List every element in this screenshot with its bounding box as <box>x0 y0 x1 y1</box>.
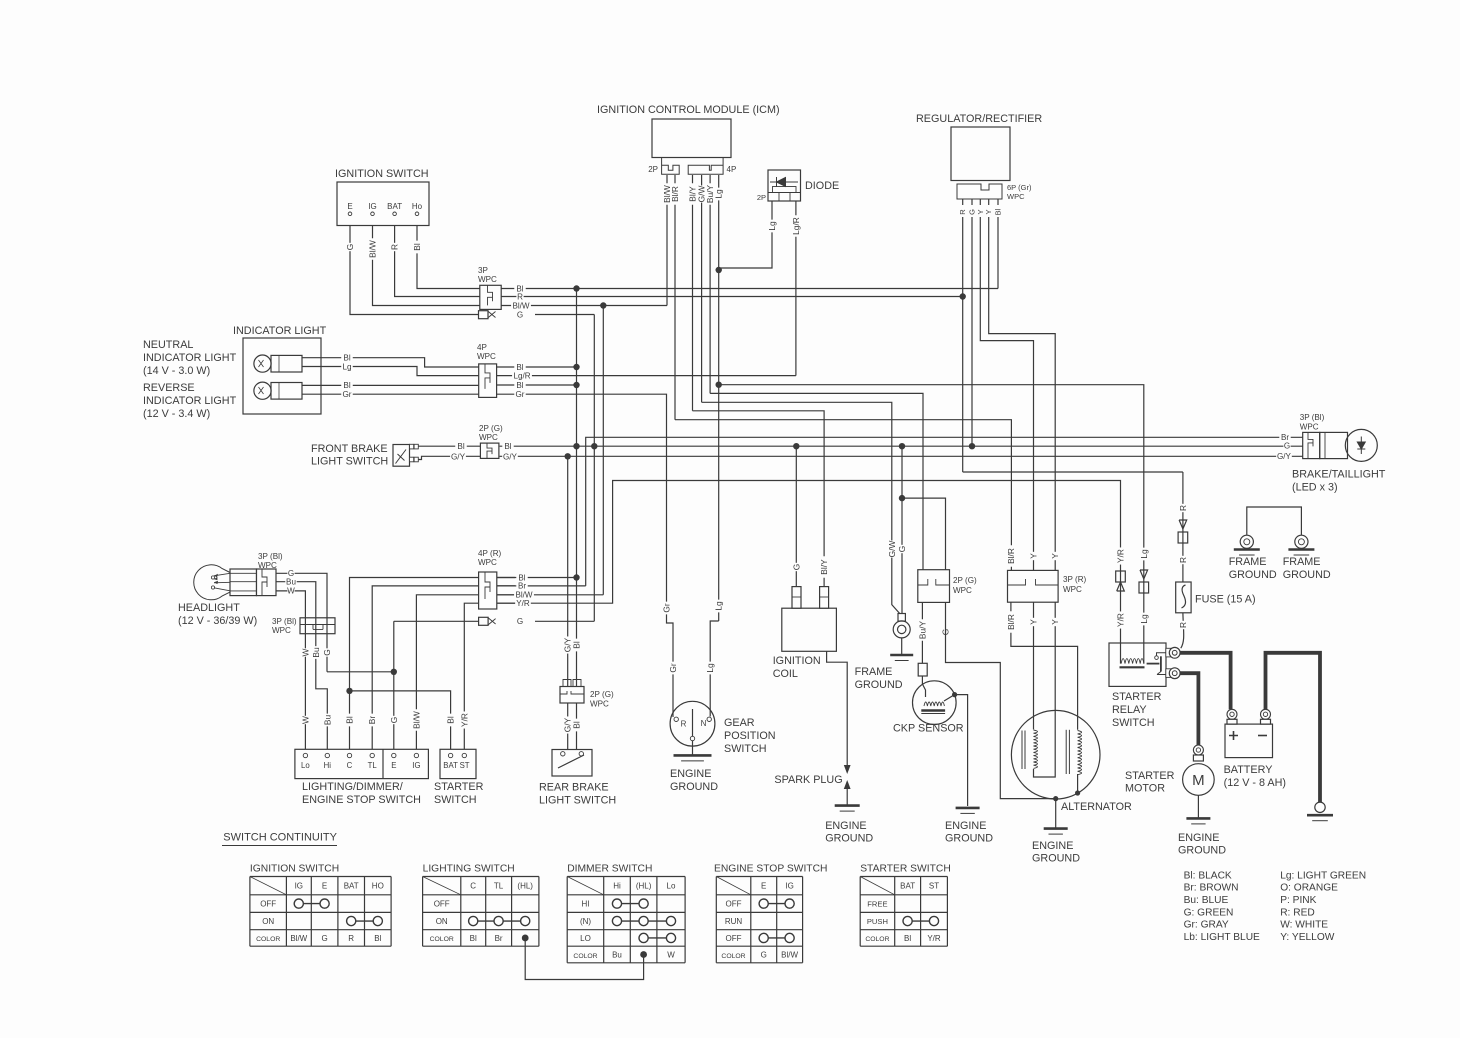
wire: diode Lg/R pin down to Lg/R row <box>795 201 797 376</box>
wire: front brake Bl row to 2P(G) connector <box>419 445 481 447</box>
label Bl above starter switch BAT pin <box>446 714 454 727</box>
label Bl above switch C pin <box>345 714 353 727</box>
label G above switch E pin <box>390 716 398 724</box>
junction: Bl vertical / 4P WPC Bl row 1 <box>573 364 579 370</box>
wire: 4P(R) Bl row to lighting switch C pin <box>350 578 479 750</box>
starter motor circle <box>1183 764 1215 796</box>
svg-text:GROUND: GROUND <box>1283 569 1331 581</box>
svg-text:Bl: Bl <box>457 442 464 451</box>
wire: ICM Bl/Y pin down <box>692 175 694 411</box>
wire: G/W bus to CKP eyelet <box>702 402 900 613</box>
svg-text:W: W <box>287 587 295 596</box>
svg-text:GROUND: GROUND <box>855 679 903 691</box>
battery - sign <box>1258 735 1267 737</box>
label Bl above rear brake 2P connector <box>572 639 580 652</box>
svg-text:Bu: BLUE: Bu: BLUE <box>1184 895 1229 906</box>
svg-text:Bl/W: Bl/W <box>781 951 798 960</box>
starter motor ground stem <box>1197 795 1199 818</box>
wire: ignition switch Ho pin to Bl row <box>417 226 480 289</box>
svg-text:Bu: Bu <box>322 715 332 726</box>
starter relay terminal stub blocks <box>1166 648 1173 657</box>
junction: R row / regulator R pin <box>960 293 966 299</box>
junction: G bus / G vertical from 3P G row <box>591 443 597 449</box>
svg-text:Y/R: Y/R <box>927 934 941 943</box>
front brake 2P(G) WPC connector box <box>480 443 499 458</box>
svg-text:BAT: BAT <box>443 761 458 770</box>
frame ground bar (CKP area) <box>890 654 913 657</box>
4P(R) row label Bl <box>516 574 527 582</box>
svg-text:Bl: Bl <box>516 381 523 390</box>
label Bu/Y on ICM pin <box>706 183 714 204</box>
junction: G vertical / headlight G wire <box>391 669 397 675</box>
svg-text:HEADLIGHT: HEADLIGHT <box>178 602 240 614</box>
svg-text:G/Y: G/Y <box>1277 452 1292 461</box>
wire: regulator G pin down to G bus <box>971 217 973 446</box>
svg-text:INDICATOR LIGHT: INDICATOR LIGHT <box>143 395 237 407</box>
svg-text:4P: 4P <box>727 165 737 174</box>
wire: CKP G pin to alternator ground run <box>946 602 1056 798</box>
junction: regulator G / G bus <box>969 443 975 449</box>
svg-text:Br: Br <box>367 716 377 725</box>
svg-text:FREE: FREE <box>867 900 887 909</box>
svg-text:G: GREEN: G: GREEN <box>1184 907 1234 918</box>
frame ground eyelet (CKP area) <box>893 621 910 638</box>
switch continuity underline <box>222 845 337 847</box>
alternator engine ground bar <box>1044 827 1068 830</box>
junction: Lg / Lg branch to starter relay <box>716 382 722 388</box>
svg-text:COIL: COIL <box>773 668 798 680</box>
headlight WPC block <box>257 569 277 596</box>
CKP pickup coil bumps <box>924 702 944 706</box>
gear switch selector bar <box>692 709 694 736</box>
svg-text:REGULATOR/RECTIFIER: REGULATOR/RECTIFIER <box>916 113 1042 125</box>
svg-text:IG: IG <box>412 761 420 770</box>
svg-text:COLOR: COLOR <box>721 953 745 960</box>
label Bu/Y below CKP connector <box>918 619 926 640</box>
frame ground bolt left <box>1240 535 1253 548</box>
starter relay switch box <box>1109 643 1166 686</box>
svg-text:ENGINE STOP SWITCH: ENGINE STOP SWITCH <box>302 794 421 806</box>
wire: reverse indicator Bl wire to 4P row3 <box>302 384 478 386</box>
svg-text:FRAME: FRAME <box>1283 556 1321 568</box>
headlight filament arrows <box>214 573 230 591</box>
svg-text:Br: Br <box>518 582 526 591</box>
wire: alternator ground stem <box>1055 799 1057 828</box>
svg-text:BAT: BAT <box>900 882 915 891</box>
svg-text:ENGINE: ENGINE <box>945 820 986 832</box>
rear brake 2P(G) WPC connector box <box>560 687 584 704</box>
junction: G/Y bus / rear brake G/Y vertical <box>565 453 571 459</box>
wire: CKP Bu/Y bullet to pickup coil <box>922 676 925 697</box>
svg-text:4P (R): 4P (R) <box>478 549 502 558</box>
svg-text:COLOR: COLOR <box>865 936 889 943</box>
svg-text:Gr: Gr <box>516 390 525 399</box>
front brake switch terminals row 2 <box>410 457 414 462</box>
svg-text:ENGINE: ENGINE <box>1032 840 1073 852</box>
label R below fuse <box>1179 621 1187 629</box>
svg-text:WPC: WPC <box>1007 192 1025 201</box>
label Y/R above starter relay <box>1116 547 1124 564</box>
junction: G / branch to CKP 2P connector <box>899 495 905 501</box>
svg-text:WPC: WPC <box>258 561 277 570</box>
label Gr below jog <box>669 662 677 675</box>
svg-text:Hi: Hi <box>613 882 621 891</box>
wire: 4P(R) Y/R row to Y/R bus to starter relay <box>497 481 1121 664</box>
label R below bullet <box>1179 556 1187 564</box>
spark plug lower arrowhead <box>844 780 851 789</box>
lighting switch table diagonal <box>423 877 461 895</box>
svg-text:STARTER: STARTER <box>1125 770 1175 782</box>
wire: CKP Bu/Y pin below connector <box>921 602 923 663</box>
3P WPC row label R <box>516 293 523 301</box>
label Bl on reverse indicator wire <box>341 381 353 389</box>
svg-text:2P (G): 2P (G) <box>953 576 977 585</box>
wire label Bl/W on ignition switch IG wire <box>368 238 376 259</box>
starter relay coil symbol <box>1121 659 1144 664</box>
svg-text:POSITION: POSITION <box>724 730 776 742</box>
label G/W on ICM pin <box>697 185 705 202</box>
label Bu above switch <box>323 714 331 727</box>
fuse box <box>1176 582 1191 613</box>
wire: Bl vertical bus (3P Bl row down to rear brake switch) <box>576 289 578 750</box>
label G mid <box>323 648 331 656</box>
4P(R) row label Y/R <box>515 599 531 607</box>
svg-text:R: RED: R: RED <box>1280 907 1315 918</box>
svg-text:NEUTRAL: NEUTRAL <box>143 339 193 351</box>
regulator 6P connector <box>957 184 1002 199</box>
bullet connector on Lg wire: open triangle <box>1140 570 1148 579</box>
bullet connector on Lg wire: box <box>1139 582 1149 593</box>
rear brake connector internal step <box>560 691 584 694</box>
battery - terminal <box>1261 709 1271 719</box>
4P WPC row label Gr <box>514 390 525 398</box>
label Bl/R below 3P(R) <box>1007 611 1015 632</box>
label Br above switch TL pin <box>368 714 376 727</box>
wire: ignition coil G terminal up to G bus <box>795 446 797 586</box>
svg-text:STARTER: STARTER <box>1112 691 1162 703</box>
neutral indicator bulb circle <box>254 355 271 372</box>
wire label R on ignition switch BAT wire <box>390 243 398 251</box>
fuse S symbol <box>1182 585 1186 608</box>
svg-text:IG: IG <box>295 882 303 891</box>
brake/taillight 3P(Bl) connector box <box>1303 432 1320 458</box>
svg-text:Lb: LIGHT BLUE: Lb: LIGHT BLUE <box>1184 932 1260 943</box>
wire: headlight G wire across <box>327 671 394 673</box>
svg-text:LIGHT SWITCH: LIGHT SWITCH <box>539 795 616 807</box>
svg-text:MOTOR: MOTOR <box>1125 783 1165 795</box>
svg-text:Lg: Lg <box>714 601 724 611</box>
wire: alternator exciter coil bottom to frame junction <box>1077 774 1079 793</box>
wire: ICM G/W pin down <box>701 175 703 402</box>
svg-text:REAR BRAKE: REAR BRAKE <box>539 782 609 794</box>
svg-text:Bl: Bl <box>904 934 911 943</box>
svg-text:COLOR: COLOR <box>256 936 280 943</box>
wire: G/Y vertical to rear brake switch <box>567 456 569 749</box>
wire: battery - cable to engine ground <box>1266 653 1321 802</box>
ICM connector strip left group (2P) <box>662 158 680 175</box>
label Bl/W above switch IG pin <box>412 709 420 730</box>
label G/Y below rear brake 2P connector <box>564 716 572 733</box>
junction: Bl vertical / 4P(R) Bl row <box>573 574 579 580</box>
svg-text:Y: Y <box>1050 553 1060 559</box>
svg-text:R: R <box>1178 557 1188 563</box>
spark plug engine ground bar <box>835 804 860 807</box>
wire: ignition switch E pin to G row <box>350 226 480 315</box>
wire: ICM Bu/Y pin down <box>709 175 711 393</box>
svg-text:6P (Gr): 6P (Gr) <box>1007 183 1032 192</box>
label Bu mid <box>312 646 320 659</box>
label Lg on neutral indicator wire <box>341 363 353 371</box>
svg-text:(12 V - 8 AH): (12 V - 8 AH) <box>1224 777 1286 789</box>
svg-text:COLOR: COLOR <box>430 936 454 943</box>
svg-text:BAT: BAT <box>344 882 359 891</box>
4P WPC row label Bl 1 <box>514 363 525 371</box>
svg-text:E: E <box>391 761 396 770</box>
switch box divider <box>382 749 384 778</box>
frame ground bar right <box>1288 548 1314 551</box>
svg-text:Gr: GRAY: Gr: GRAY <box>1184 920 1229 931</box>
svg-text:G: G <box>517 617 523 626</box>
dimmer switch table diagonal <box>567 877 604 895</box>
battery + terminal <box>1227 709 1237 719</box>
label W above switch <box>301 716 309 724</box>
starter switch pins <box>448 753 452 757</box>
svg-text:Br: BROWN: Br: BROWN <box>1184 883 1239 894</box>
svg-text:STARTER: STARTER <box>434 781 484 793</box>
svg-text:R: R <box>1178 505 1188 511</box>
svg-text:G: G <box>517 310 523 319</box>
wire: headlight G row to down-corner <box>301 573 327 672</box>
label Bl left of front brake 2P connector <box>455 442 467 450</box>
svg-text:Y/R: Y/R <box>1116 613 1126 627</box>
svg-text:Bl/R: Bl/R <box>1006 614 1016 630</box>
svg-text:Y: Y <box>984 209 993 214</box>
svg-text:(LED x 3): (LED x 3) <box>1292 482 1338 494</box>
svg-text:Lg/R: Lg/R <box>513 371 530 380</box>
wire: R run to fuse corner <box>963 471 1183 473</box>
frame ground bridge (right) <box>1247 507 1302 535</box>
gear position switch circle <box>670 701 715 746</box>
ignition switch table diagonal <box>250 877 287 895</box>
wire: 3P(R) Bl/R pin below connector to alternator exciter coil <box>1011 602 1078 730</box>
label Lg on diode pin <box>768 220 776 233</box>
svg-text:INDICATOR LIGHT: INDICATOR LIGHT <box>143 352 237 364</box>
label Bl/R on ICM pin <box>671 183 679 204</box>
svg-text:GROUND: GROUND <box>1229 569 1277 581</box>
junction: Bl vertical / 4P WPC Bl row 3 <box>573 382 579 388</box>
svg-text:Y/R: Y/R <box>459 713 469 727</box>
svg-text:O: ORANGE: O: ORANGE <box>1280 883 1338 894</box>
starter motor ground bar <box>1186 817 1210 820</box>
label Bl/R above 3P(R) <box>1007 545 1015 566</box>
svg-text:SWITCH: SWITCH <box>434 794 477 806</box>
wire: Bl-G ground bus from front brake connector to taillight <box>500 445 1303 447</box>
front brake 2P connector internal step <box>487 443 492 458</box>
bullet connector on R wire: open triangle <box>1179 520 1187 529</box>
starter switch table grid <box>860 877 947 947</box>
alternator charging coil core <box>1021 731 1023 770</box>
svg-text:HI: HI <box>582 900 590 909</box>
engine stop switch table diagonal <box>716 877 751 895</box>
svg-text:G/Y: G/Y <box>451 452 466 461</box>
wire: ICM Bl/R pin down to Bl/R bus <box>674 175 676 420</box>
svg-text:Lg: Lg <box>1139 614 1149 624</box>
svg-text:WPC: WPC <box>1063 585 1082 594</box>
link wire from lighting (HL) to dimmer (HL) <box>525 938 643 980</box>
svg-text:Lg: Lg <box>705 663 715 673</box>
wire: 4P(R) Bl/W row right segment up the Bl/W vertical <box>497 594 604 596</box>
regulator/rectifier box <box>951 127 1010 181</box>
svg-text:Bl: Bl <box>345 716 355 724</box>
svg-text:STARTER SWITCH: STARTER SWITCH <box>860 864 951 875</box>
svg-text:Bu: Bu <box>311 647 321 658</box>
wire label Bl on ignition switch Ho wire <box>413 241 421 254</box>
svg-text:G/Y: G/Y <box>503 452 518 461</box>
svg-text:ST: ST <box>460 761 470 770</box>
svg-text:WPC: WPC <box>953 586 972 595</box>
wire: Bl/W vertical bus down to 4P(R) Bl/W row <box>602 306 604 595</box>
svg-text:Bu: Bu <box>286 578 296 587</box>
lower 3P (Bl) WPC connector box <box>300 618 335 634</box>
reverse indicator bulb circle <box>254 382 271 399</box>
wire: G vertical from 3P G row down to 4P(R) G row <box>593 315 595 622</box>
3P WPC row label Bl/W <box>511 302 531 310</box>
front brake switch terminals row 1 <box>410 444 414 449</box>
ICM connector strip right group (4P) <box>688 158 723 175</box>
CKP core bar <box>921 709 945 712</box>
svg-text:WPC: WPC <box>272 626 291 635</box>
gear switch ground stem <box>692 741 694 756</box>
svg-text:2P: 2P <box>648 165 658 174</box>
svg-text:Lg/R: Lg/R <box>791 217 801 235</box>
reverse bulb base <box>271 383 302 400</box>
wire: G/Y bus from front brake connector to taillight <box>500 455 1303 457</box>
3P WPC connector box <box>480 285 501 309</box>
label Y above 3P(R) pin2 <box>1051 552 1059 560</box>
wire: Bl branch to starter switch BAT pin <box>350 691 451 749</box>
label Lg lower above starter relay <box>1140 613 1148 626</box>
svg-text:3P (Bl): 3P (Bl) <box>258 552 283 561</box>
svg-text:OFF: OFF <box>726 900 742 909</box>
3P (R) WPC connector box <box>1008 570 1059 602</box>
wire: ignition switch IG pin to Bl/W row <box>373 226 480 306</box>
svg-text:G: G <box>389 717 399 724</box>
svg-text:G: G <box>897 546 907 553</box>
4P(R) G row label <box>516 617 523 625</box>
starter relay terminal top <box>1169 647 1180 658</box>
lighting ON continuity circles <box>469 916 478 925</box>
CKP Bu/Y bullet box <box>918 663 927 676</box>
wire: G net down from bus to CKP area <box>901 446 903 613</box>
CKP connector internal step <box>918 579 950 585</box>
wire: 3P(R) Y pin 2 down the middle of alternator <box>1034 602 1056 777</box>
frame ground bar left <box>1234 548 1260 551</box>
dimmer LO continuity circles <box>639 933 648 942</box>
headlight prong lines <box>230 572 257 574</box>
front brake switch box <box>393 445 410 467</box>
wire: 4P(R) G row left to E pin vertical <box>394 620 479 622</box>
svg-text:R: R <box>681 720 687 729</box>
svg-text:(12 V - 36/39 W): (12 V - 36/39 W) <box>178 615 257 627</box>
eyelet lower stem to bar <box>901 638 903 655</box>
wire: 4P(R) Br row right segment <box>497 585 586 587</box>
dimmer (HL) color dot <box>640 951 647 958</box>
4P WPC connector internal step <box>485 364 490 389</box>
label Lg above jog <box>715 600 723 613</box>
label R above fuse bullet <box>1179 504 1187 512</box>
svg-text:OFF: OFF <box>260 900 276 909</box>
CKP engine ground bar <box>956 807 980 810</box>
wire: CKP sensor output to its engine ground <box>944 695 968 806</box>
3P WPC row label G <box>516 311 523 319</box>
label Bl on neutral indicator wire <box>341 354 353 362</box>
wire: R row from 3P WPC to regulator R pin <box>501 296 963 298</box>
indicator light box <box>243 338 321 414</box>
CKP sensor circle <box>913 681 957 725</box>
svg-text:3P (R): 3P (R) <box>1063 575 1087 584</box>
svg-text:Bl: Bl <box>446 716 456 724</box>
4P(R) row label Bl/W <box>514 591 534 599</box>
svg-text:Bl/R: Bl/R <box>670 186 680 202</box>
svg-text:FRAME: FRAME <box>855 666 893 678</box>
bullet connector on Y/R wire: box <box>1116 571 1126 582</box>
svg-text:GEAR: GEAR <box>724 717 755 729</box>
reverse bulb filament <box>259 387 264 394</box>
svg-text:ST: ST <box>929 882 939 891</box>
svg-text:2P (G): 2P (G) <box>590 690 614 699</box>
svg-text:ON: ON <box>262 917 274 926</box>
wire: Lg jog to gear position switch N <box>710 621 719 717</box>
starter switch table diagonal <box>860 877 895 895</box>
svg-text:R: R <box>348 934 354 943</box>
label Bl right of front brake connector <box>502 443 513 451</box>
svg-text:M: M <box>1192 772 1205 789</box>
svg-text:LIGHTING/DIMMER/: LIGHTING/DIMMER/ <box>302 781 403 793</box>
svg-text:P: PINK: P: PINK <box>1280 895 1316 906</box>
4P(R) G-row bullet arrow <box>488 618 495 625</box>
svg-text:BAT: BAT <box>387 202 402 211</box>
label Y above 3P(R) pin1 <box>1029 552 1037 560</box>
svg-text:(12 V - 3.4 W): (12 V - 3.4 W) <box>143 408 210 420</box>
wire: Bu/Y bus to CKP 2P connector <box>710 393 923 569</box>
lighting switch (HL) color dot <box>522 935 529 942</box>
svg-text:(N): (N) <box>580 917 591 926</box>
svg-text:FRAME: FRAME <box>1229 556 1267 568</box>
battery ground bar <box>1307 814 1333 817</box>
svg-text:W: W <box>300 716 310 724</box>
wire: ICM Bl/W pin down <box>666 175 668 306</box>
wire: Bl/R bus to 3P(R) connector <box>675 420 1011 571</box>
svg-text:WPC: WPC <box>479 433 498 442</box>
svg-text:IGNITION: IGNITION <box>773 655 821 667</box>
svg-text:BRAKE/TAILLIGHT: BRAKE/TAILLIGHT <box>1292 469 1386 481</box>
4P WPC row label Lg/R <box>512 372 532 380</box>
label G on ignition coil wire <box>792 563 800 571</box>
label Bl/Y on ignition coil wire <box>820 556 828 577</box>
svg-text:SWITCH CONTINUITY: SWITCH CONTINUITY <box>223 832 337 844</box>
svg-text:(HL): (HL) <box>517 882 533 891</box>
junction: Lg / diode Lg wire <box>716 267 722 273</box>
svg-text:LO: LO <box>580 934 591 943</box>
svg-text:(14 V - 3.0 W): (14 V - 3.0 W) <box>143 365 210 377</box>
gear switch R terminal <box>674 717 678 721</box>
wire: front brake G/Y row to 2P(G) connector <box>419 456 481 459</box>
svg-text:Y: YELLOW: Y: YELLOW <box>1280 932 1335 943</box>
svg-text:4P: 4P <box>477 343 487 352</box>
wire: G vertical down to E pin of engine stop switch <box>393 621 395 749</box>
svg-text:G: G <box>322 649 332 656</box>
svg-text:WPC: WPC <box>1300 423 1319 432</box>
